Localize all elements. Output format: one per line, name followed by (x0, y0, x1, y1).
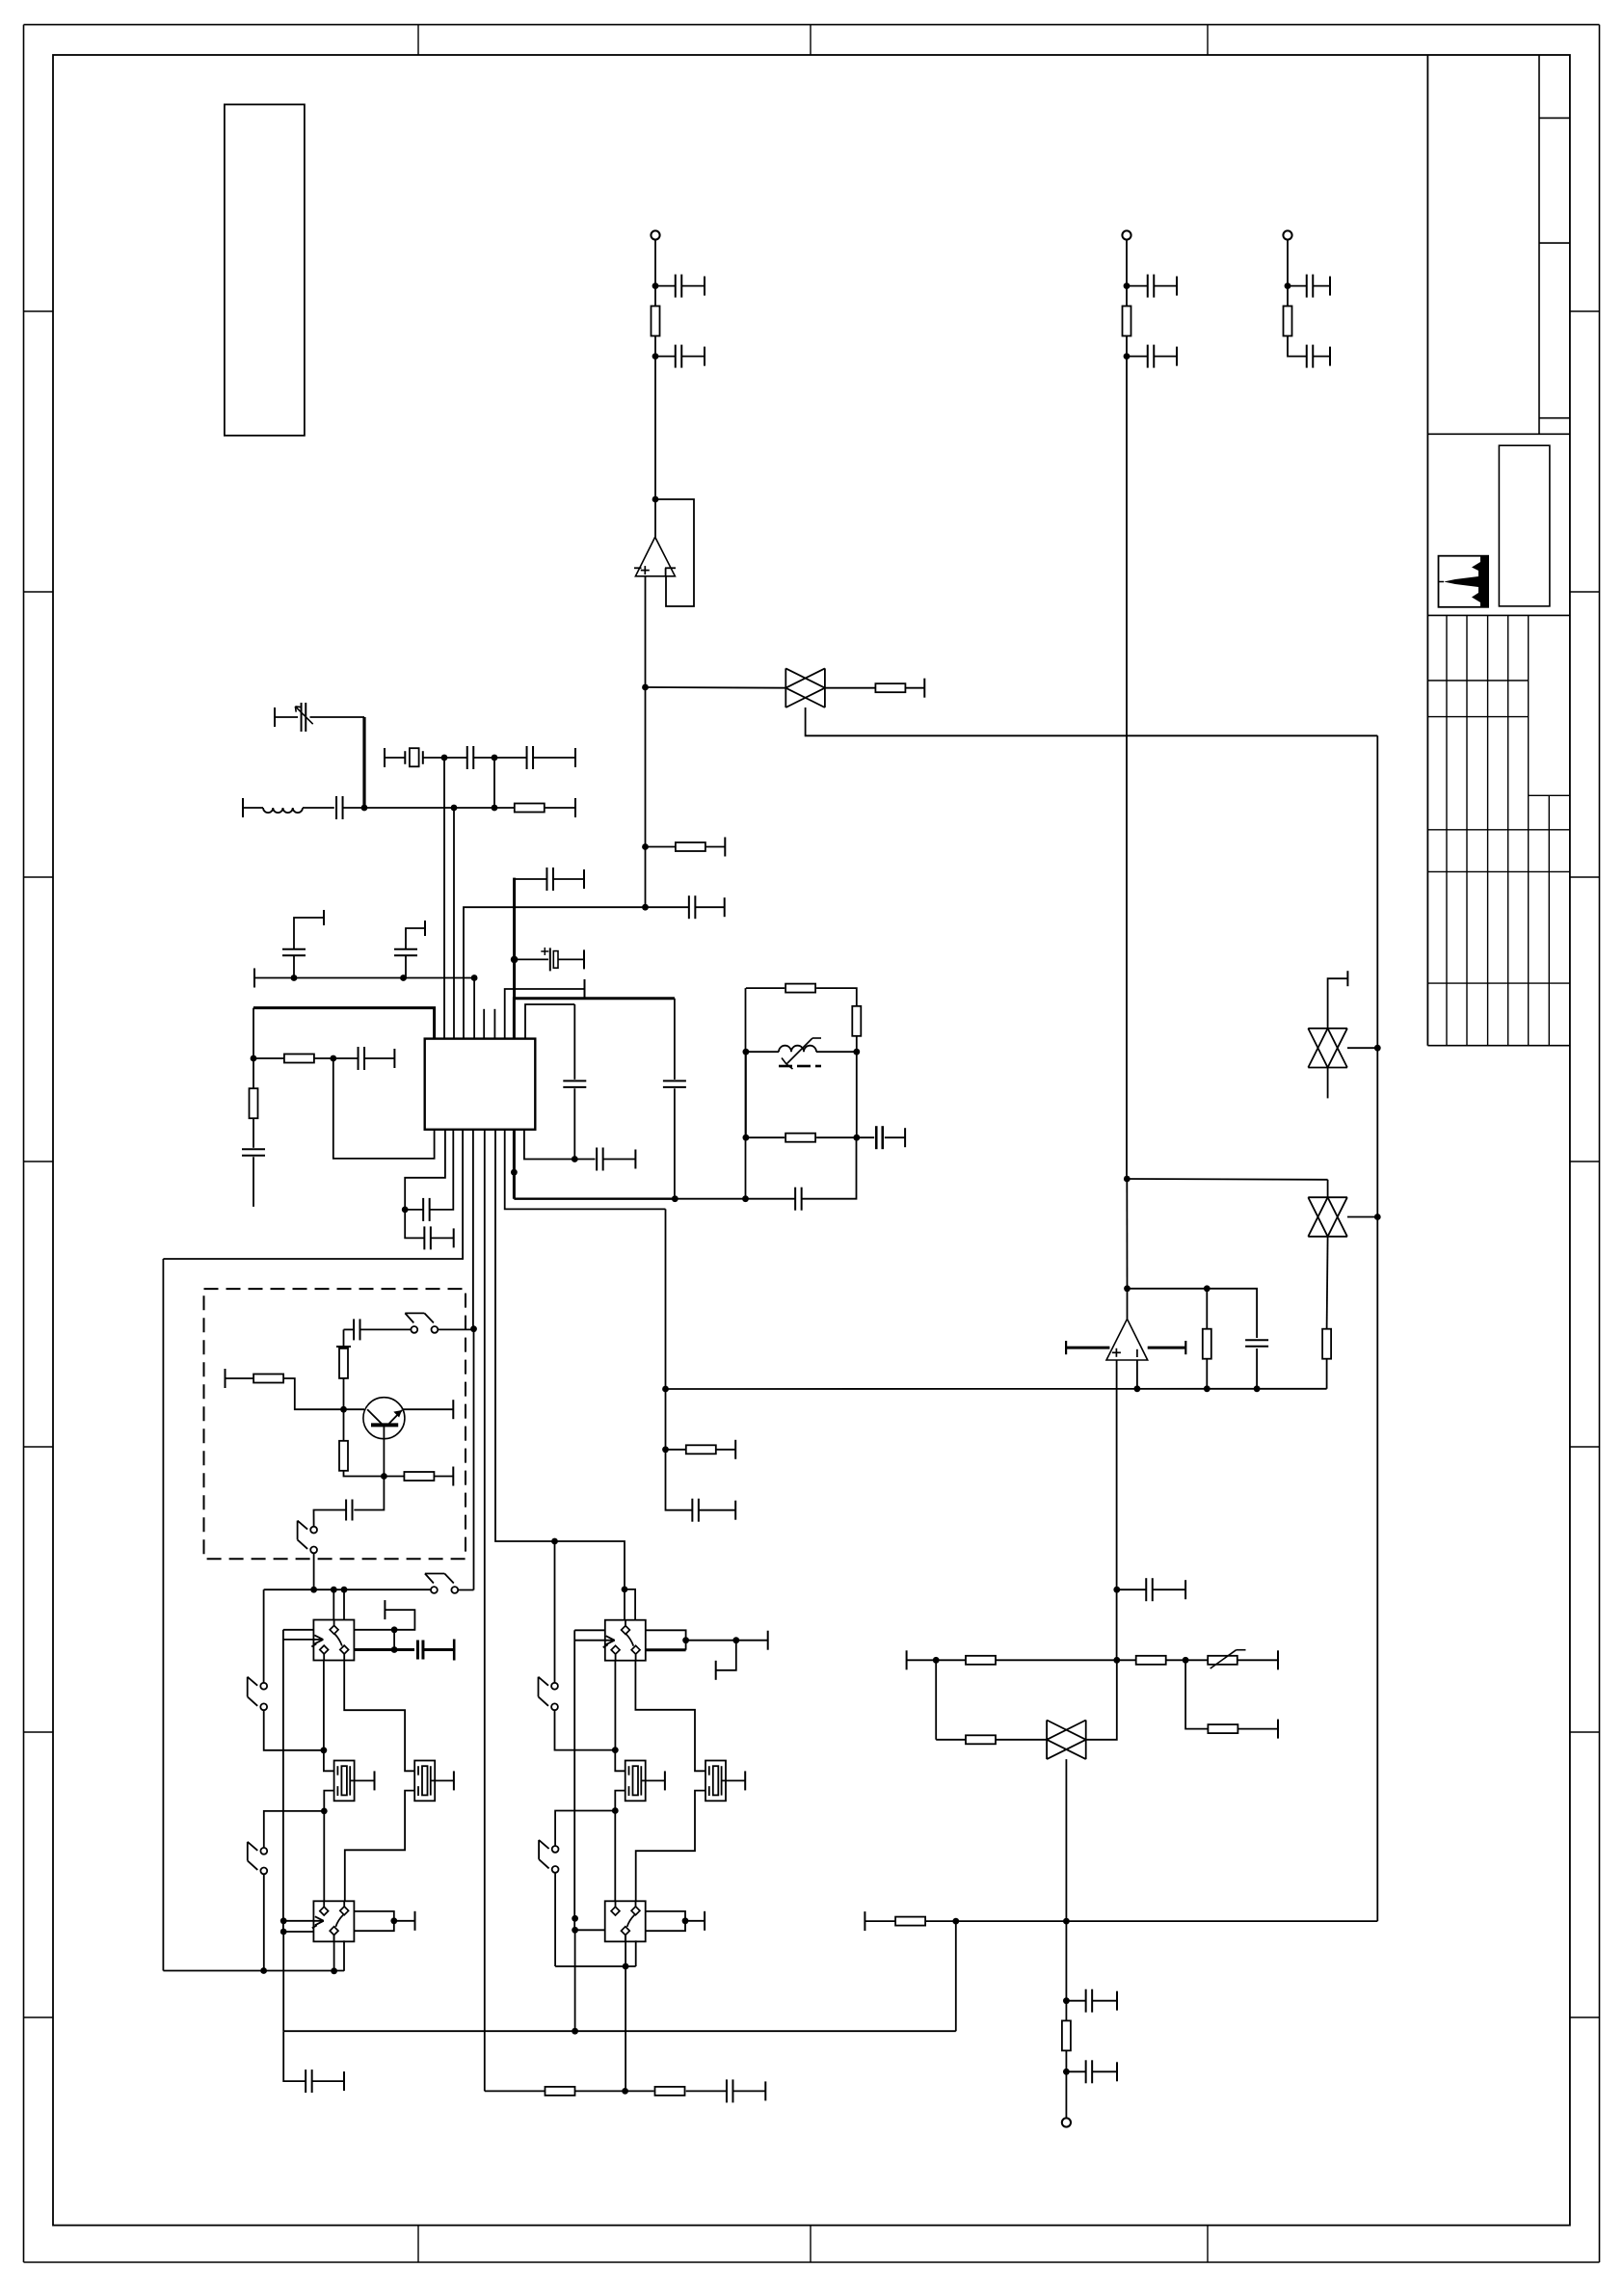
title block table top (1427, 614, 1570, 616)
wire (625, 2090, 654, 2092)
wire (343, 1940, 345, 1971)
wire (1065, 1759, 1067, 1921)
terminal (715, 1661, 717, 1680)
capacitor C2 (676, 345, 682, 368)
wire (344, 1469, 385, 1476)
wire (699, 1509, 735, 1511)
wire (283, 1629, 314, 1631)
wire feed (282, 1630, 284, 1932)
wire + input (645, 575, 647, 687)
wire (354, 1911, 394, 1931)
wire pin net B (525, 1004, 574, 1039)
junction (742, 1195, 749, 1202)
terminal (453, 1771, 455, 1790)
rail (746, 1198, 796, 1200)
junction (321, 1747, 328, 1753)
terminal (574, 748, 576, 767)
wire (936, 1739, 966, 1741)
terminal (424, 921, 426, 936)
junction (662, 1446, 669, 1453)
capacitor C14 (282, 949, 306, 956)
wire IC pin drop (443, 758, 445, 1039)
wire - input (1136, 1360, 1138, 1389)
wire (625, 1935, 626, 1966)
frame bottom zone ticks (418, 2226, 1208, 2262)
wire bold (514, 999, 675, 1039)
trimmer capacitor C8 (302, 703, 306, 732)
capacitor C19 (359, 1047, 365, 1070)
filter Z3 (1308, 1028, 1347, 1068)
junction (642, 684, 649, 691)
wire (695, 906, 724, 908)
capacitor C23 (597, 1148, 603, 1171)
capacitor C10 (467, 746, 474, 769)
wire (1327, 1180, 1329, 1197)
wire bold (424, 1648, 455, 1651)
terminal (452, 1467, 454, 1486)
junction (390, 1917, 397, 1924)
resistor R13 (339, 1348, 348, 1378)
junction (511, 1169, 518, 1176)
resistor R11 (852, 1006, 861, 1036)
capacitor C7 (1307, 345, 1314, 368)
wire filter tap (806, 707, 1378, 735)
wire (323, 1811, 325, 1902)
capacitor C20 (423, 1198, 430, 1221)
wire (333, 1589, 334, 1619)
junction (291, 974, 298, 981)
wire (654, 240, 656, 286)
wire (1086, 1660, 1117, 1740)
junction (400, 974, 407, 981)
capacitor C6 (1307, 275, 1314, 298)
wire (666, 1449, 686, 1451)
wire (686, 1640, 736, 1642)
wire rail2 riser (955, 1921, 957, 2031)
wire (746, 1136, 785, 1138)
connector X2 (1122, 230, 1131, 239)
wire (384, 1476, 404, 1478)
crystal ZQ1 (405, 748, 423, 766)
junction (743, 1049, 750, 1055)
wire (666, 1450, 693, 1510)
junction (853, 1135, 860, 1141)
wire (716, 1449, 735, 1451)
capacitor C18 (242, 1149, 265, 1156)
title block column lines (1447, 615, 1549, 1045)
wire (655, 285, 676, 287)
wire (1127, 356, 1148, 358)
junction (511, 956, 519, 964)
terminal (906, 1650, 908, 1669)
junction (952, 1918, 959, 1925)
wire (393, 1630, 395, 1650)
junction (441, 755, 448, 761)
wire (646, 1911, 685, 1931)
wire (574, 1159, 595, 1161)
wire (736, 1640, 768, 1642)
wire (354, 1610, 414, 1630)
terminal (764, 2081, 766, 2100)
wire (646, 1630, 686, 1649)
resistor R20 (1322, 1329, 1331, 1359)
row (1185, 1659, 1208, 1661)
terminal (453, 1228, 455, 1247)
capacitor C22 (692, 1499, 699, 1522)
terminal (1329, 277, 1331, 296)
wire (263, 1874, 265, 1970)
junction (622, 1587, 628, 1593)
wire (163, 1130, 463, 1259)
junction (331, 1967, 337, 1974)
resistor R14 (253, 1375, 283, 1383)
wire (665, 1389, 667, 1450)
resistor R4 (1123, 307, 1131, 336)
wire (1066, 2070, 1085, 2072)
capacitor C25 (876, 1126, 883, 1149)
terminal (704, 1911, 705, 1931)
wire (283, 1931, 313, 1933)
logo glyph (1439, 557, 1489, 607)
terminal (1277, 1650, 1279, 1669)
wire (405, 1130, 445, 1210)
junction (331, 1587, 337, 1593)
junction (391, 1626, 398, 1633)
wire (614, 1661, 616, 1750)
wire (1347, 1047, 1377, 1049)
wire (343, 1377, 345, 1409)
wire (654, 286, 656, 307)
wire (310, 716, 365, 718)
switch box SB3 (605, 1620, 646, 1661)
wire (343, 1329, 345, 1348)
row (1117, 1659, 1136, 1661)
terminal (1277, 1720, 1279, 1739)
rail bold (514, 1197, 675, 1199)
rail2 (283, 2030, 956, 2032)
connector X1 (651, 230, 659, 239)
wire (816, 1136, 857, 1138)
title block revision column (1539, 55, 1570, 434)
terminal (323, 910, 325, 925)
wire (722, 1779, 746, 1781)
wire pin stub (493, 1009, 495, 1039)
junction (1124, 353, 1131, 360)
wire (313, 1553, 315, 1589)
resistor R17 (545, 2087, 575, 2096)
terminal (384, 1600, 386, 1619)
wire (505, 989, 585, 1039)
terminal (923, 679, 925, 698)
wire (816, 988, 857, 1006)
wire (825, 687, 875, 689)
terminal (767, 1631, 769, 1650)
row (936, 1659, 966, 1661)
junction (471, 974, 478, 981)
wire (573, 1088, 575, 1159)
capacitor C28 (417, 1641, 423, 1660)
wire (264, 1710, 324, 1750)
wire (515, 878, 546, 880)
junction (330, 1055, 336, 1062)
terminal (1329, 347, 1331, 366)
wire pin stub (483, 1009, 485, 1039)
IC U2 (425, 1039, 536, 1130)
wire (856, 1052, 858, 1137)
wire (314, 1510, 347, 1527)
rail (675, 1198, 745, 1200)
wire (857, 1136, 874, 1138)
wire RC left edge (745, 988, 747, 1199)
capacitor C29 (727, 2079, 733, 2102)
rail U3 (666, 1388, 1327, 1390)
wire (705, 846, 725, 848)
junction (642, 904, 649, 911)
junction (280, 1929, 287, 1936)
resistor R15 (339, 1441, 348, 1471)
wire (430, 1130, 454, 1210)
wire (1206, 1289, 1208, 1329)
junction (612, 1807, 619, 1814)
terminal (393, 1049, 395, 1068)
junction (572, 2028, 578, 2035)
junction (361, 805, 368, 812)
wire (458, 1589, 474, 1591)
junction (622, 2088, 628, 2095)
terminal (374, 1771, 376, 1790)
wire (1092, 2000, 1117, 2002)
wire bold loop (253, 1008, 435, 1039)
terminal (724, 838, 726, 857)
wire (495, 1130, 555, 1541)
wire (1065, 2071, 1067, 2118)
wire (732, 2090, 765, 2092)
wire (350, 1779, 374, 1781)
wire (655, 356, 676, 358)
frame right zone ticks (1570, 311, 1600, 2017)
terminal (242, 798, 244, 817)
wire (434, 1476, 453, 1478)
wire (1256, 1348, 1258, 1389)
wire (293, 955, 295, 977)
wire (524, 1130, 574, 1160)
switch SA1 (405, 1313, 438, 1332)
wire (645, 687, 647, 847)
wire (472, 1130, 474, 1329)
wire (1207, 1289, 1257, 1338)
junction (1254, 1385, 1261, 1392)
wire (685, 1920, 705, 1922)
wire (405, 1209, 423, 1211)
op-amp input bar left (1066, 1341, 1109, 1354)
junction (492, 755, 498, 761)
wire (1288, 335, 1307, 357)
terminal (634, 1150, 636, 1169)
wire (284, 1378, 344, 1409)
wire (554, 1541, 556, 1683)
wire (323, 1661, 325, 1750)
wire (1313, 285, 1330, 287)
rail (254, 977, 474, 979)
wire (405, 1210, 424, 1239)
junction (1183, 1657, 1189, 1664)
wire (243, 807, 263, 809)
filter Z2 (1308, 1197, 1347, 1237)
junction (1124, 1176, 1131, 1183)
terminal (1346, 971, 1348, 986)
rail (264, 1589, 431, 1590)
terminal (452, 1400, 454, 1419)
wire (681, 356, 705, 358)
wire (574, 1930, 576, 2031)
wire (473, 1329, 475, 1590)
wire (716, 1641, 736, 1670)
junction (652, 282, 659, 289)
title block name box (1499, 445, 1550, 606)
junction (402, 1207, 409, 1214)
wire (885, 1136, 905, 1138)
wire (1066, 2000, 1085, 2002)
wire (303, 807, 334, 809)
wire bold (354, 1648, 414, 1651)
terminal (1184, 1580, 1186, 1599)
terminal (734, 1440, 736, 1459)
wire IC pin drop (453, 808, 455, 1039)
capacitor C31 (1146, 1578, 1153, 1601)
resistor R8 (284, 1055, 314, 1063)
resistor R3 (676, 842, 705, 851)
junction (572, 1156, 578, 1162)
capacitor C30 (1245, 1340, 1268, 1347)
resistor R25 (1208, 1724, 1237, 1733)
capacitor C26 (354, 1319, 359, 1340)
row (907, 1659, 937, 1661)
junction (672, 1195, 678, 1202)
wire (343, 807, 455, 809)
switch SA3 (425, 1574, 458, 1593)
junction (1204, 1285, 1211, 1292)
resistor R1 (652, 307, 660, 336)
wiper arrow (283, 1916, 324, 1928)
wire (333, 1057, 359, 1059)
junction (572, 1915, 578, 1922)
switch SA6 (539, 1677, 558, 1711)
junction (310, 1587, 317, 1593)
wire (360, 1328, 412, 1330)
terminal (225, 1369, 226, 1388)
terminal tick (336, 1346, 351, 1348)
wire (625, 1966, 626, 2091)
terminal (734, 1501, 736, 1520)
wire (1126, 240, 1128, 286)
wire (344, 1328, 355, 1330)
capacitor C34 (306, 2069, 312, 2093)
wire (906, 687, 924, 689)
wire (1153, 1589, 1185, 1590)
resistor R12 (785, 1134, 815, 1142)
wire (438, 1328, 473, 1330)
row (956, 1920, 1067, 1922)
wire trimmer drop (362, 717, 365, 808)
piezo filter ZQ3 (414, 1761, 435, 1802)
wire emitter (383, 1426, 385, 1476)
wire (505, 1130, 666, 1210)
junction (662, 1386, 669, 1393)
wire (1126, 335, 1128, 357)
wire (553, 878, 584, 880)
wire opamp feed (665, 1209, 667, 1389)
terminal (453, 1640, 456, 1661)
junction (470, 1325, 477, 1332)
wire sb1 to zq3 (344, 1660, 414, 1771)
wire (654, 357, 656, 499)
transistor VT1 (363, 1398, 405, 1439)
switch box SB4 (605, 1901, 646, 1941)
wire (996, 1739, 1047, 1741)
connector X4 (1062, 2118, 1071, 2126)
wire (615, 1791, 625, 1811)
junction (280, 1917, 287, 1924)
wire (423, 757, 444, 759)
wire (635, 1940, 637, 1966)
junction (1063, 1918, 1070, 1925)
wire (253, 1157, 254, 1207)
junction (1063, 1997, 1070, 2004)
wire main right vertical (1126, 357, 1128, 1179)
op-amp U1 (634, 537, 676, 576)
wire (1238, 1728, 1278, 1730)
trimmer arrow (295, 707, 312, 724)
wire (1065, 1921, 1067, 2020)
terminal (664, 1771, 666, 1790)
wire (575, 2090, 625, 2092)
wire (454, 807, 494, 809)
wire (406, 928, 425, 949)
junction (642, 843, 649, 850)
wire (686, 2090, 727, 2092)
wire (283, 2031, 306, 2081)
wire (264, 1811, 325, 1848)
wire (1328, 978, 1348, 1028)
wire (324, 1750, 334, 1772)
junction (1374, 1045, 1381, 1052)
wire (614, 1811, 616, 1902)
wire base (344, 1408, 365, 1410)
terminal (253, 969, 255, 988)
wire (253, 1119, 254, 1148)
op-amp input bar right (1148, 1341, 1186, 1354)
junction (340, 1406, 347, 1413)
wire bold osc bus (513, 878, 516, 999)
capacitor C16 (563, 1081, 586, 1087)
wire (641, 1779, 665, 1781)
capacitor C24 (795, 1188, 802, 1211)
terminal (864, 1911, 865, 1931)
capacitor C27 (346, 1500, 352, 1521)
terminal (1116, 2062, 1118, 2081)
dashed enclosure (204, 1289, 466, 1559)
wire (615, 1750, 625, 1772)
resistor R21 (966, 1656, 996, 1665)
capacitor C9 (336, 796, 343, 819)
junction (652, 496, 659, 503)
wire (645, 847, 647, 908)
capacitor C21 (424, 1226, 431, 1249)
wire (294, 918, 324, 949)
terminal (1176, 347, 1178, 366)
wire collector lead (403, 1408, 454, 1410)
terminal (704, 277, 705, 296)
